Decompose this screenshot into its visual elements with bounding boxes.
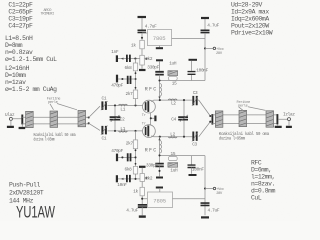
svg-text:duzina l=95mm: duzina l=95mm: [219, 137, 246, 142]
svg-text:4.7uF: 4.7uF: [208, 209, 220, 214]
svg-text:2k2: 2k2: [145, 177, 153, 182]
svg-text:2k2: 2k2: [145, 57, 153, 62]
svg-text:YU1AW: YU1AW: [16, 203, 55, 221]
svg-text:Pdrive=2x10W: Pdrive=2x10W: [231, 29, 273, 36]
svg-text:7805: 7805: [153, 197, 166, 204]
svg-text:100nF: 100nF: [192, 167, 204, 172]
svg-text:330pF: 330pF: [146, 163, 158, 168]
svg-text:d=0.8mm: d=0.8mm: [251, 187, 276, 194]
svg-text:4.7uF: 4.7uF: [207, 24, 219, 29]
svg-text:Ud=28-29V: Ud=28-29V: [231, 1, 262, 8]
svg-text:2xDV28120T: 2xDV28120T: [9, 189, 44, 196]
svg-text:RFC: RFC: [251, 159, 262, 166]
svg-text:RFC: RFC: [145, 147, 158, 153]
svg-text:15: 15: [172, 81, 177, 86]
svg-text:D=6mm,: D=6mm,: [251, 166, 272, 173]
svg-text:Ulaz: Ulaz: [5, 113, 15, 118]
svg-text:Pout=2x120W: Pout=2x120W: [231, 22, 269, 29]
svg-text:C3: C3: [193, 91, 198, 96]
svg-text:L2=16nH: L2=16nH: [5, 65, 30, 72]
svg-text:L1=8.5nH: L1=8.5nH: [5, 35, 33, 42]
svg-text:470pF: 470pF: [111, 149, 123, 154]
svg-text:n=1zav: n=1zav: [5, 79, 26, 86]
svg-text:TRIMERI: TRIMERI: [41, 12, 54, 16]
svg-text:2k7: 2k7: [126, 92, 134, 97]
svg-text:2k7: 2k7: [126, 141, 134, 146]
svg-text:RFC: RFC: [145, 87, 158, 93]
svg-text:n=8zav.: n=8zav.: [251, 180, 275, 187]
svg-text:1k: 1k: [133, 189, 138, 194]
svg-text:1nF: 1nF: [111, 50, 119, 55]
svg-text:C2: C2: [120, 117, 125, 122]
svg-text:C3=19pF: C3=19pF: [8, 16, 33, 23]
svg-text:6k8: 6k8: [125, 66, 133, 71]
svg-text:10nF: 10nF: [117, 183, 127, 188]
svg-text:1k: 1k: [131, 43, 136, 48]
svg-text:C3: C3: [192, 142, 197, 147]
svg-text:C2=65pF: C2=65pF: [8, 9, 33, 16]
svg-text:100nF: 100nF: [196, 69, 208, 74]
svg-text:C4: C4: [171, 117, 176, 122]
svg-text:D=10mm: D=10mm: [5, 72, 26, 79]
svg-text:ø=1.2-1.5mm CuL: ø=1.2-1.5mm CuL: [5, 56, 57, 63]
svg-text:Tr: Tr: [142, 123, 146, 127]
svg-text:4.7uF: 4.7uF: [145, 25, 157, 30]
svg-text:470pF: 470pF: [111, 83, 123, 88]
svg-text:L2: L2: [171, 101, 176, 106]
svg-text:L1: L1: [120, 107, 125, 112]
svg-text:perle: perle: [48, 100, 58, 105]
svg-text:1uH: 1uH: [170, 168, 178, 173]
svg-text:L2: L2: [170, 132, 175, 137]
svg-text:C1: C1: [102, 97, 107, 102]
svg-text:7805: 7805: [153, 35, 166, 42]
svg-text:Izlaz: Izlaz: [283, 112, 295, 117]
svg-text:1uH: 1uH: [169, 62, 177, 67]
svg-text:C1=22pF: C1=22pF: [8, 2, 33, 9]
svg-text:CuL: CuL: [251, 195, 262, 202]
svg-text:C1: C1: [102, 136, 107, 141]
svg-text:Tr: Tr: [142, 114, 146, 118]
svg-text:n=0.8zav: n=0.8zav: [5, 49, 33, 56]
svg-text:ø=1.5-2 mm CuAg: ø=1.5-2 mm CuAg: [5, 86, 57, 93]
svg-text:D=8mm: D=8mm: [5, 42, 23, 49]
svg-text:duzina l=95mm: duzina l=95mm: [34, 138, 55, 143]
svg-text:Id=2x9A max: Id=2x9A max: [231, 8, 269, 15]
svg-text:C4=27pF: C4=27pF: [8, 23, 33, 30]
svg-text:330pF: 330pF: [147, 66, 159, 71]
svg-text:Push-Pull: Push-Pull: [9, 181, 40, 188]
svg-text:L1: L1: [120, 127, 125, 132]
svg-text:Idq=2x600mA: Idq=2x600mA: [231, 15, 269, 22]
svg-text:6k8: 6k8: [125, 168, 133, 173]
svg-text:l=12mm,: l=12mm,: [251, 173, 275, 180]
svg-text:4.7uF: 4.7uF: [126, 208, 138, 213]
